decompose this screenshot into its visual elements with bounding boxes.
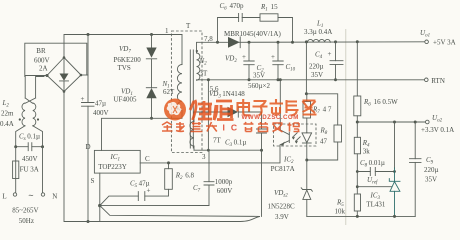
svg-text:RTN: RTN <box>431 77 445 85</box>
resistor R4 3k <box>356 122 358 137</box>
bias winding N3 7T <box>193 112 195 122</box>
diode VD2 MBR1045 <box>228 37 240 48</box>
wire: C pin wire to optocoupler emitter <box>140 146 280 163</box>
svg-text:600V: 600V <box>217 187 233 195</box>
wire: secondary top lead to 7,8 output <box>197 42 228 53</box>
capacitor Cx 0.1u X-cap <box>16 146 43 148</box>
terminal +3.3V <box>426 120 430 124</box>
svg-text:10k: 10k <box>335 208 346 216</box>
resistor R2 6.8 <box>165 169 173 190</box>
bridge rectifier BR diamond <box>47 58 81 92</box>
wire: choke right winding down to X-cap node <box>33 126 43 147</box>
svg-text:1: 1 <box>165 27 169 35</box>
svg-text:P6KE200: P6KE200 <box>114 56 142 64</box>
svg-text:∼: ∼ <box>28 192 34 200</box>
capacitor C6 470p <box>239 14 243 22</box>
inductor L2 common-mode choke left winding <box>22 103 25 126</box>
terminal +5V output <box>425 40 429 44</box>
svg-text:47: 47 <box>320 138 328 146</box>
diode VD1 UF4005 <box>146 87 156 89</box>
node: RTN drop at 5,6 <box>207 78 210 81</box>
node: R6 tap on +5V rail <box>356 40 359 43</box>
node: snubber return on rail <box>291 41 294 44</box>
svg-text:35V: 35V <box>425 176 437 184</box>
watermark big char 2 (ku) <box>214 101 234 120</box>
svg-text:PC817A: PC817A <box>271 165 295 173</box>
transformer core lines <box>190 50 193 148</box>
svg-text:BR: BR <box>36 47 46 55</box>
polarity dot right of choke <box>37 118 39 120</box>
diode VD3 1N4148 <box>194 111 228 113</box>
svg-text:450V: 450V <box>22 155 38 163</box>
node: R2 tap on C wire <box>167 161 170 164</box>
resistor R1 15 <box>260 14 278 21</box>
wire: down from +5V rail to R7 node, crossing RTN <box>305 42 307 94</box>
wire: star to middle gnd rail to C7 bottom <box>100 205 209 207</box>
watermark char chang <box>287 100 299 116</box>
wire: down to zener <box>306 160 308 190</box>
svg-text:560µ×2: 560µ×2 <box>248 82 270 90</box>
transient suppressor VD7 P6KE200 TVS <box>151 35 153 48</box>
primary winding N1 62T <box>177 65 182 111</box>
node: C9 on 3.3V rail <box>414 121 417 124</box>
scan crease artifact line <box>345 29 347 225</box>
wire: RTN down-drop to VD3 anode area <box>207 80 209 150</box>
wire: ref line to TL431 <box>356 185 359 188</box>
svg-text:85~265V: 85~265V <box>12 207 38 215</box>
svg-text:UF4005: UF4005 <box>114 96 137 104</box>
capacitor C3 0.1u <box>261 112 263 129</box>
resistor R6 16 0.5W <box>354 96 361 116</box>
wire: secondary bottom rail <box>307 215 415 217</box>
svg-text:7T: 7T <box>213 137 222 145</box>
wire: C1 column from DC+ rail down to C1 <box>87 35 89 103</box>
capacitor C5 47u <box>138 192 145 201</box>
polarity dot left of choke <box>19 118 21 120</box>
resistor R8 47 <box>334 125 342 142</box>
wire: top DC+ rail from bridge to transformer pin 1 <box>64 35 182 58</box>
node: C4 top <box>334 40 337 43</box>
Y-capacitor C7 1000p 600V <box>208 150 210 182</box>
wire: +3.3V rail <box>357 121 425 123</box>
node: star ground <box>98 204 101 207</box>
svg-text:600V: 600V <box>34 57 50 65</box>
svg-text:+: + <box>242 53 246 61</box>
svg-text:35V: 35V <box>311 71 323 79</box>
wire: star node down to bottom rail <box>99 206 101 222</box>
svg-text:2A: 2A <box>39 65 48 73</box>
node: C2 top <box>248 41 251 44</box>
wire: R6 column <box>356 42 358 96</box>
svg-text:IC: IC <box>223 123 244 133</box>
svg-text:22m: 22m <box>1 110 14 118</box>
node: C10 top <box>277 41 280 44</box>
svg-text:+: + <box>147 187 151 195</box>
resistor R7 47 <box>303 102 311 119</box>
svg-text:50Hz: 50Hz <box>19 217 34 225</box>
opto light arrows <box>293 133 301 141</box>
opto emitter with arrow <box>280 141 289 146</box>
watermark big char 1 (wei) <box>190 100 212 120</box>
svg-text:T: T <box>186 22 191 30</box>
inductor L2 common-mode choke right winding <box>33 103 36 126</box>
opto LED <box>306 132 308 134</box>
watermark char wang <box>303 101 317 115</box>
capacitor C4 220u 35V <box>335 42 337 61</box>
node: bridge bottom vertex <box>63 90 66 93</box>
svg-text:5,6: 5,6 <box>210 85 219 93</box>
node: bridge left vertex junction <box>46 74 49 77</box>
svg-text:C: C <box>145 155 150 163</box>
wire: choke left winding down to X-cap node <box>16 126 25 147</box>
wire: RTN rail <box>197 79 425 81</box>
node: VD1 to drain wire <box>150 117 153 120</box>
opto phototransistor bar <box>288 132 290 142</box>
node: bridge right vertex <box>80 74 83 77</box>
svg-text:TOP223Y: TOP223Y <box>98 163 127 171</box>
svg-text:400V: 400V <box>93 109 109 117</box>
secondary winding N2 3T <box>197 53 200 80</box>
svg-text:TVS: TVS <box>118 64 131 72</box>
svg-text:1N5228C: 1N5228C <box>268 203 296 211</box>
terminal N <box>41 193 44 196</box>
optocoupler IC2 PC817A dashed box <box>274 124 317 146</box>
node: R6/R4 junction on 3.3V rail <box>356 121 359 124</box>
svg-text:+: + <box>328 50 332 58</box>
node: TL431 anode bottom <box>393 215 396 218</box>
svg-text:62T: 62T <box>163 88 175 96</box>
polarity dot secondary top <box>196 50 198 52</box>
svg-text:3.3µ 0.4A: 3.3µ 0.4A <box>304 28 332 36</box>
node: R7 top node <box>305 92 308 95</box>
wire: bridge right vertex to C1 column <box>81 74 88 76</box>
capacitor C9 220u 35V <box>414 122 416 159</box>
svg-text:3: 3 <box>202 153 206 161</box>
node: RTN drop junction on pin3 rail <box>207 149 210 152</box>
svg-text:7,8: 7,8 <box>204 35 213 43</box>
svg-text:L: L <box>2 193 6 201</box>
svg-text:3T: 3T <box>200 70 209 78</box>
node: LED cathode/R8 junction <box>305 159 308 162</box>
watermark slogan row: quan qiu zui da I C cai gou wang zhan <box>162 122 217 132</box>
svg-text:S: S <box>91 177 95 185</box>
resistor R5 10k <box>354 194 360 211</box>
polarity dot primary bottom <box>176 107 178 109</box>
svg-text:WWW.DZSC.COM: WWW.DZSC.COM <box>242 114 299 121</box>
svg-text:0.4A: 0.4A <box>0 120 14 128</box>
node: Cx right junction <box>41 145 44 148</box>
bridge rectifier BR label box (open bottom) <box>25 43 87 76</box>
wire: S pin to star ground node <box>99 173 101 206</box>
svg-text:+5V 3A: +5V 3A <box>433 39 456 47</box>
node: snubber tap <box>216 41 219 44</box>
svg-text:3.9V: 3.9V <box>275 213 289 221</box>
node: junction of TVS on DC+ rail <box>150 33 153 36</box>
primary winding N1 lead from rail <box>181 35 183 65</box>
capacitor C10 560u <box>277 42 279 61</box>
wire: drain net from primary winding bottom to D pin <box>102 111 183 151</box>
watermark logo disc <box>164 99 186 121</box>
node: Cx left junction <box>14 145 17 148</box>
terminal RTN <box>425 78 429 82</box>
node: C8 to cathode line <box>393 170 396 173</box>
diode inside bridge <box>63 58 65 74</box>
inductor L1 3.3u 0.4A <box>308 39 331 42</box>
transformer dashed box <box>171 31 202 153</box>
node: junction of C1 feed on DC+ rail <box>87 33 90 36</box>
wire: bridge left vertex to choke left <box>25 76 47 99</box>
wire: C3 bottom node down to bottom rail <box>261 150 263 216</box>
node: C4 bottom on RTN <box>334 78 337 81</box>
svg-text:N: N <box>52 193 57 201</box>
svg-text:220µ: 220µ <box>424 166 439 174</box>
wire: bridge bottom vertex to primary GND bottom rail <box>64 92 260 222</box>
node: C1 to bottom rail <box>87 220 90 223</box>
wire: right leg down to N <box>42 147 44 193</box>
node: TL431 cathode on 3.3V rail <box>393 121 396 124</box>
wire: star to C5 branch <box>100 196 139 206</box>
svg-text:+3.3V 0.1A: +3.3V 0.1A <box>421 126 454 134</box>
wire: crossed leads into common-mode choke <box>25 98 32 103</box>
node: bridge top vertex <box>63 56 66 59</box>
watermark char zi <box>253 101 268 116</box>
snubber wire up and across <box>218 18 239 43</box>
wire: left leg to fuse <box>15 147 17 161</box>
wire: second choke lead upper <box>36 77 44 99</box>
node: C10 bottom <box>277 78 280 81</box>
watermark char dian <box>238 99 251 115</box>
svg-text:220µ: 220µ <box>309 63 324 71</box>
watermark char shi <box>270 99 284 116</box>
node: R5 bottom <box>356 215 359 218</box>
svg-text:3k: 3k <box>363 148 371 156</box>
capacitor C1 47u/400V <box>82 103 95 107</box>
zener diode VD2 1N5228C 3.9V <box>301 188 312 191</box>
capacitor C8 0.01u <box>356 170 359 173</box>
node: R7 feed tap on +5V rail <box>305 40 308 43</box>
svg-text:35V: 35V <box>253 72 265 80</box>
svg-text:FU 3A: FU 3A <box>20 166 39 174</box>
op-amp IC1 TOP223Y box <box>94 150 140 173</box>
svg-text:1000p: 1000p <box>215 178 233 186</box>
fuse FU 3A <box>13 161 19 179</box>
svg-text:47µ: 47µ <box>95 100 106 108</box>
svg-text:+: + <box>81 95 85 103</box>
svg-text:D: D <box>86 143 91 151</box>
wire: across to R8 branch <box>306 94 337 125</box>
terminal L <box>13 193 16 196</box>
node: C2 bottom <box>248 78 251 81</box>
svg-text:MBR1045(40V/1A): MBR1045(40V/1A) <box>224 30 281 38</box>
svg-text:TL431: TL431 <box>366 201 386 209</box>
svg-text:+: + <box>271 53 275 61</box>
capacitor C2 560u <box>248 42 250 61</box>
wire: bias return pin3 rail <box>194 149 262 151</box>
wire: +5V output rail <box>238 41 424 44</box>
shunt regulator IC3 TL431 <box>394 122 396 168</box>
wire: star to lower gnd diagonal rail <box>100 206 260 217</box>
opto collector wire from RTN rail <box>279 78 282 81</box>
node: C3 bottom junction <box>260 149 263 152</box>
